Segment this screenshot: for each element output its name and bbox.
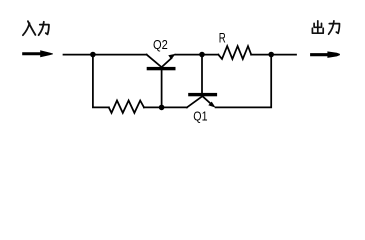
svg-text:Q1: Q1 — [193, 108, 207, 123]
svg-text:Q2: Q2 — [153, 37, 168, 52]
svg-text:R: R — [219, 31, 226, 47]
